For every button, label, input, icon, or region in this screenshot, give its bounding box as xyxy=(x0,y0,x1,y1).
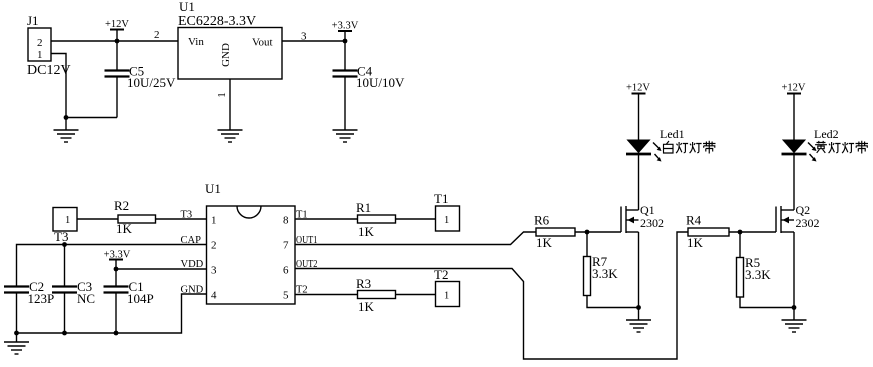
svg-text:NC: NC xyxy=(77,291,95,306)
svg-text:1: 1 xyxy=(216,92,228,98)
IC U1 xyxy=(205,181,295,304)
wire to ground xyxy=(638,308,640,321)
regulator gnd pin wire xyxy=(229,79,231,130)
wire to ground xyxy=(793,308,795,321)
wire R2 to IC pin 1 xyxy=(156,218,207,220)
svg-text:U1: U1 xyxy=(205,181,221,196)
wire R7 to source node xyxy=(587,296,639,308)
connector T3 xyxy=(53,208,77,245)
capacitor C3 xyxy=(52,245,95,334)
junction VDD / C1 xyxy=(114,267,119,272)
svg-text:7: 7 xyxy=(283,240,289,252)
mosfet Q1 xyxy=(621,203,664,233)
svg-text:+12V: +12V xyxy=(626,83,650,94)
power +3.3V xyxy=(332,21,359,42)
wire GND net rail xyxy=(17,294,207,333)
power +12V xyxy=(105,19,129,41)
wire Q2 drain to LED xyxy=(793,155,795,210)
svg-text:T3: T3 xyxy=(181,210,193,221)
svg-text:5: 5 xyxy=(283,290,289,302)
wire Q1 source down xyxy=(638,232,640,308)
svg-text:+12V: +12V xyxy=(105,19,129,30)
regulator U1 EC6228-3.3V xyxy=(178,0,282,79)
svg-text:2: 2 xyxy=(211,240,217,252)
led Led2 xyxy=(782,127,839,162)
resistor R7 xyxy=(584,254,619,296)
junction J1 pin1 / C5 xyxy=(64,115,69,120)
connector J1 xyxy=(27,13,71,78)
power +12V at Q1 xyxy=(626,83,650,94)
resistor R6 xyxy=(534,213,575,251)
svg-text:3: 3 xyxy=(211,265,217,277)
svg-text:+3.3V: +3.3V xyxy=(332,21,359,32)
label 白灯灯带 xyxy=(664,141,716,154)
svg-text:Q2: Q2 xyxy=(796,203,811,217)
ground under C4 xyxy=(333,130,358,142)
capacitor C5 xyxy=(105,41,177,118)
ground under J1 xyxy=(54,130,79,142)
wire R5 to source node xyxy=(740,297,794,308)
svg-text:J1: J1 xyxy=(27,13,39,28)
svg-text:Led2: Led2 xyxy=(814,127,839,141)
junction R4 / R5 xyxy=(738,230,743,235)
junction Q1 source / ground xyxy=(636,305,641,310)
junction C2 bottom corner xyxy=(14,331,19,336)
wire to R5 xyxy=(739,232,741,258)
svg-text:1: 1 xyxy=(444,291,449,302)
junction Q2 source / ground xyxy=(792,305,797,310)
svg-text:Vin: Vin xyxy=(188,36,204,48)
resistor R1 xyxy=(356,200,396,239)
svg-text:1K: 1K xyxy=(116,221,133,236)
ground bottom left xyxy=(4,342,29,354)
wire Q2 source down xyxy=(793,232,795,308)
mosfet Q2 xyxy=(776,203,820,233)
svg-text:+12V: +12V xyxy=(781,83,805,94)
led Led1 xyxy=(626,127,685,162)
resistor R2 xyxy=(114,198,156,236)
junction +12V / C5 xyxy=(115,39,120,44)
wire C5 bottom to J1 pin1 xyxy=(66,117,117,119)
svg-text:1: 1 xyxy=(65,215,70,226)
svg-text:3: 3 xyxy=(301,31,307,43)
junction C3 bottom xyxy=(62,331,67,336)
wire R3 to T2 xyxy=(396,294,436,296)
svg-text:2302: 2302 xyxy=(796,216,820,230)
svg-text:U1: U1 xyxy=(179,0,195,14)
wire CAP net xyxy=(17,245,207,287)
wire IC pin5 to R3 xyxy=(295,294,358,296)
junction C3 top xyxy=(62,242,67,247)
svg-text:R2: R2 xyxy=(114,198,129,213)
svg-text:6: 6 xyxy=(283,265,289,277)
svg-text:Vout: Vout xyxy=(252,37,273,49)
wire VDD net xyxy=(116,268,207,270)
svg-text:T3: T3 xyxy=(54,229,68,244)
capacitor C1 xyxy=(104,269,154,333)
svg-text:4: 4 xyxy=(211,290,217,302)
wire to R7 xyxy=(586,232,588,257)
wire R1 to T1 xyxy=(396,218,436,220)
wire R6 to Q1 gate xyxy=(575,231,621,233)
svg-text:10U/10V: 10U/10V xyxy=(356,75,405,90)
wire R4 to Q2 gate xyxy=(729,231,776,233)
svg-text:10U/25V: 10U/25V xyxy=(127,75,176,90)
ground under Q2 xyxy=(782,320,807,332)
wire to ground xyxy=(65,118,67,131)
label 黄灯灯带 xyxy=(815,141,868,154)
svg-text:R3: R3 xyxy=(356,276,371,291)
svg-text:1: 1 xyxy=(37,49,43,61)
svg-text:1: 1 xyxy=(444,215,449,226)
wire OUT2 to R4 xyxy=(295,232,688,359)
svg-text:1K: 1K xyxy=(358,299,375,314)
junction R6 / R7 xyxy=(585,230,590,235)
power +12V at Q2 xyxy=(781,83,805,94)
svg-text:1: 1 xyxy=(211,215,217,227)
svg-text:Led1: Led1 xyxy=(660,127,685,141)
svg-text:GND: GND xyxy=(220,43,232,67)
svg-text:8: 8 xyxy=(283,215,289,227)
capacitor C4 xyxy=(333,41,406,130)
svg-text:3.3K: 3.3K xyxy=(745,267,771,282)
connector T1 xyxy=(434,191,460,231)
wire IC pin8 to R1 xyxy=(295,218,358,220)
svg-text:EC6228-3.3V: EC6228-3.3V xyxy=(178,14,256,29)
wire +12V to Led2 xyxy=(793,94,795,141)
svg-text:T2: T2 xyxy=(434,267,448,282)
wire rail to ground xyxy=(16,333,18,342)
svg-text:2: 2 xyxy=(37,37,43,49)
svg-text:R1: R1 xyxy=(356,200,371,215)
wire J1 pin1 down xyxy=(51,54,66,118)
wire Q1 drain to LED xyxy=(638,155,640,210)
svg-text:2302: 2302 xyxy=(640,216,664,230)
resistor R5 xyxy=(737,255,772,297)
wire +12V to Led1 xyxy=(638,94,640,141)
svg-text:Q1: Q1 xyxy=(640,203,655,217)
svg-text:T1: T1 xyxy=(434,191,448,206)
wire J1 pin2 to U1 Vin xyxy=(51,40,178,42)
ground under regulator xyxy=(218,130,243,142)
svg-text:DC12V: DC12V xyxy=(27,63,71,78)
svg-text:3.3K: 3.3K xyxy=(592,266,618,281)
connector T2 xyxy=(434,267,460,307)
wire OUT1 to R6 xyxy=(295,232,536,245)
ground under Q1 xyxy=(626,320,651,332)
capacitor C2 xyxy=(4,279,54,333)
resistor R4 xyxy=(686,213,729,251)
resistor R3 xyxy=(356,276,396,314)
svg-text:1K: 1K xyxy=(687,235,704,250)
svg-text:2: 2 xyxy=(154,29,160,41)
svg-text:1K: 1K xyxy=(358,224,375,239)
svg-text:R6: R6 xyxy=(534,213,550,228)
power +3.3V at VDD xyxy=(104,250,131,270)
junction C1 bottom xyxy=(114,331,119,336)
svg-text:R4: R4 xyxy=(686,213,702,228)
junction +3.3V / C4 xyxy=(343,39,348,44)
wire Vout to C4 xyxy=(282,40,345,42)
wire T3 to R2 xyxy=(77,218,118,220)
svg-text:104P: 104P xyxy=(127,291,154,306)
svg-text:1K: 1K xyxy=(536,235,553,250)
svg-text:123P: 123P xyxy=(28,291,55,306)
